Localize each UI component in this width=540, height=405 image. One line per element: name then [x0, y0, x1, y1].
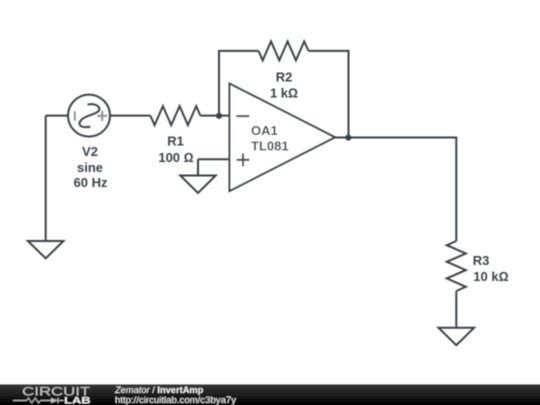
svg-text:TL081: TL081: [251, 139, 289, 154]
svg-text:OA1: OA1: [251, 123, 278, 138]
svg-text:V2: V2: [82, 144, 98, 159]
svg-text:R2: R2: [276, 69, 293, 84]
svg-text:10 kΩ: 10 kΩ: [473, 269, 508, 284]
svg-text:sine: sine: [77, 160, 103, 175]
svg-text:R1: R1: [167, 134, 184, 149]
svg-text:100 Ω: 100 Ω: [158, 150, 193, 165]
svg-text:Zemator / InvertAmp: Zemator / InvertAmp: [114, 385, 204, 395]
svg-text:http://circuitlab.com/c3bya7y: http://circuitlab.com/c3bya7y: [115, 395, 236, 405]
svg-text:LAB: LAB: [64, 395, 91, 405]
svg-text:60 Hz: 60 Hz: [74, 175, 108, 190]
svg-text:R3: R3: [473, 253, 490, 268]
svg-text:1 kΩ: 1 kΩ: [270, 86, 298, 101]
